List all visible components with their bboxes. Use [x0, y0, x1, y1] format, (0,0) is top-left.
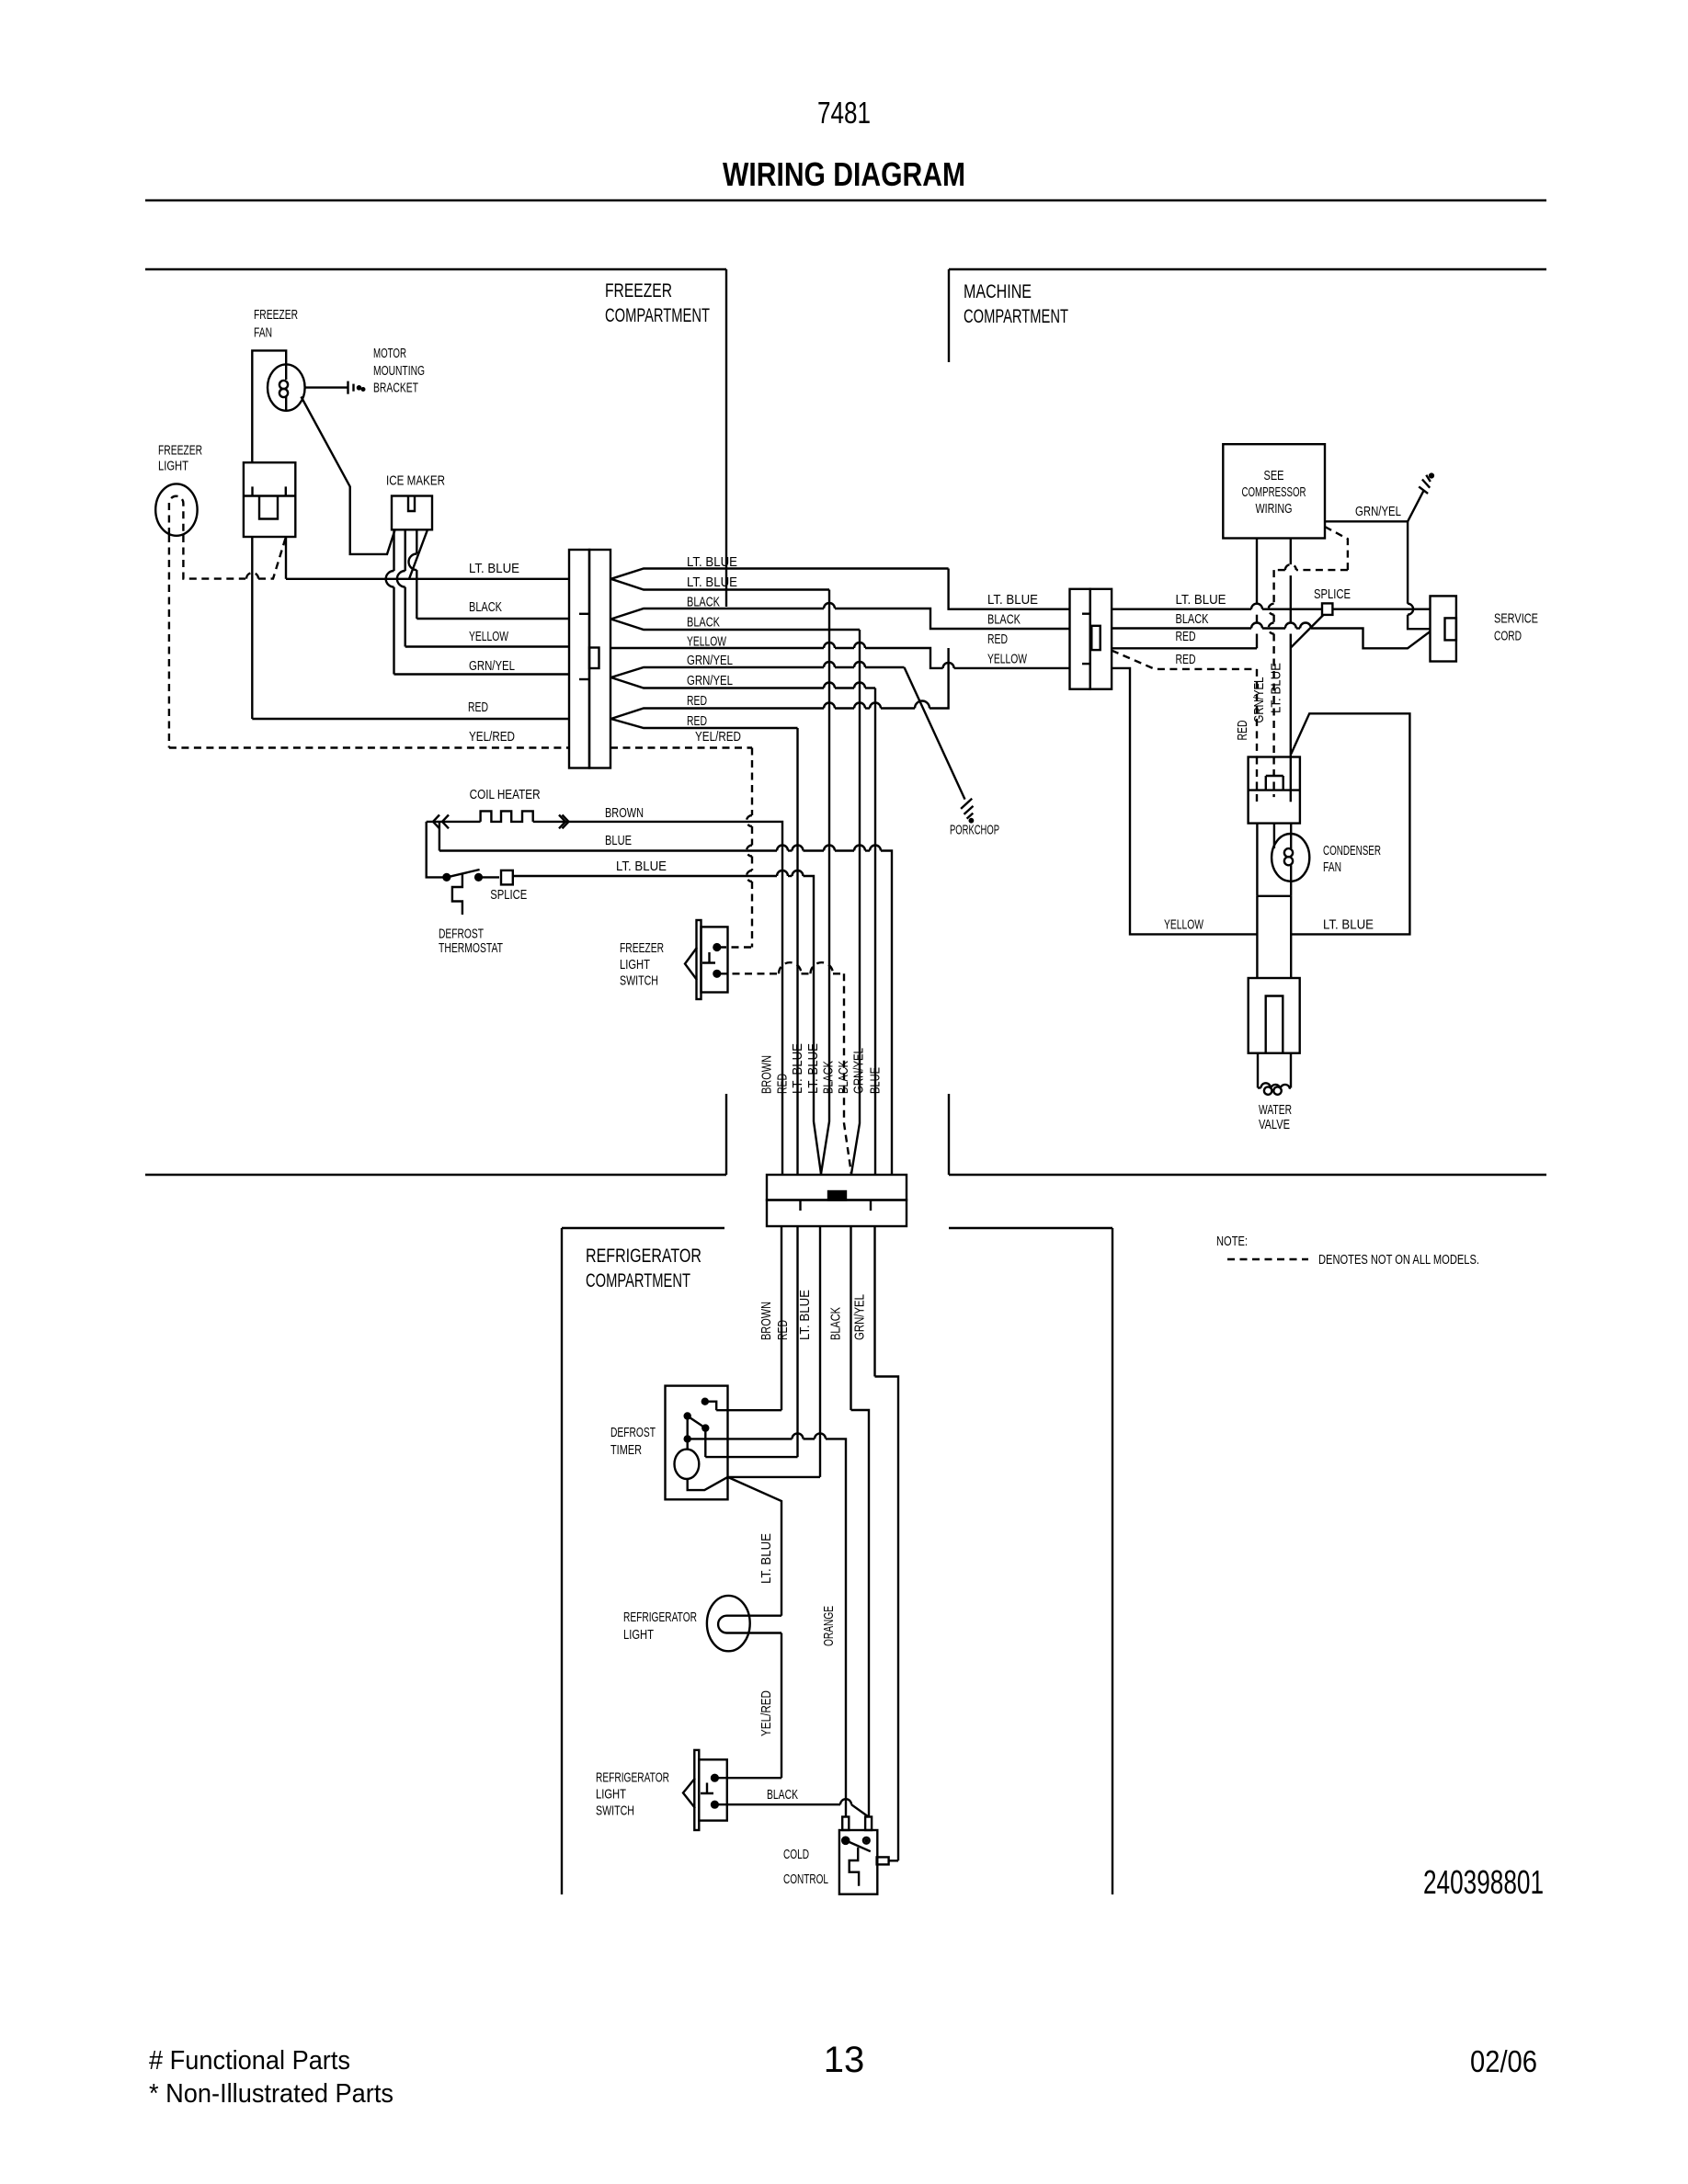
svg-text:RED: RED	[987, 632, 1008, 647]
refrigerator light switch body	[694, 1750, 699, 1830]
svg-text:240398801: 240398801	[1423, 1863, 1544, 1901]
svg-text:GRN/YEL: GRN/YEL	[687, 654, 733, 668]
svg-text:WIRING DIAGRAM: WIRING DIAGRAM	[723, 155, 965, 193]
svg-text:LT. BLUE: LT. BLUE	[1176, 593, 1226, 608]
svg-text:BLACK: BLACK	[469, 600, 502, 615]
svg-text:COMPRESSOR: COMPRESSOR	[1242, 485, 1306, 500]
svg-text:VALVE: VALVE	[1259, 1118, 1290, 1132]
wire LT. BLUE into defrost timer	[728, 1476, 821, 1478]
wire LT. BLUE row from splice to bundle	[513, 875, 610, 877]
svg-text:SEE: SEE	[1264, 469, 1284, 483]
wire LT. BLUE to refrigerator light	[728, 1477, 782, 1616]
freezer light filament (dashed)	[169, 496, 184, 535]
svg-text:DENOTES NOT ON ALL MODELS.: DENOTES NOT ON ALL MODELS.	[1318, 1253, 1479, 1268]
svg-text:YELLOW: YELLOW	[687, 635, 726, 650]
freezer compartment boundary top	[145, 268, 726, 270]
svg-text:DEFROST: DEFROST	[610, 1426, 656, 1440]
wire BLACK row to connector P1	[416, 618, 569, 620]
wire freezer light to YEL/RED row (dashed)	[168, 535, 170, 748]
svg-text:LIGHT: LIGHT	[158, 460, 188, 474]
machine compartment boundary bottom	[948, 1094, 950, 1175]
wire YEL/RED dashed descends to freezer light switch	[751, 748, 753, 816]
svg-text:RED: RED	[687, 714, 707, 729]
svg-text:LIGHT: LIGHT	[596, 1788, 626, 1803]
GRN/YEL dashed from compressor	[1325, 527, 1348, 570]
svg-text:LT. BLUE: LT. BLUE	[469, 562, 519, 576]
svg-text:RED: RED	[1176, 653, 1196, 667]
defrost timer contact 3	[702, 1426, 708, 1431]
svg-text:REFRIGERATOR: REFRIGERATOR	[586, 1246, 701, 1267]
machine ground symbol	[1408, 491, 1424, 522]
cold control thermostat zigzag	[850, 1848, 859, 1886]
refrigerator compartment boundary	[562, 1227, 724, 1229]
freezer compartment boundary bottom	[725, 1094, 727, 1175]
connector P3 body	[767, 1175, 907, 1200]
porkchop ground symbol	[961, 799, 972, 809]
wire YELLOW row through crossings	[610, 647, 824, 649]
svg-text:NOTE:: NOTE:	[1216, 1234, 1248, 1249]
svg-text:YEL/RED: YEL/RED	[469, 730, 515, 745]
svg-text:REFRIGERATOR: REFRIGERATOR	[623, 1610, 697, 1625]
cold control body	[839, 1830, 877, 1894]
svg-text:LIGHT: LIGHT	[620, 958, 650, 973]
svg-text:MACHINE: MACHINE	[964, 281, 1032, 302]
svg-text:BRACKET: BRACKET	[373, 381, 418, 396]
svg-text:BLUE: BLUE	[869, 1067, 884, 1094]
cold control contacts	[842, 1837, 849, 1844]
svg-text:BLACK: BLACK	[1176, 612, 1209, 627]
ice maker pin 3 wire to BLACK	[416, 529, 417, 553]
svg-text:LT. BLUE: LT. BLUE	[798, 1290, 813, 1340]
note dashed sample	[1227, 1258, 1308, 1260]
freezer light switch body	[697, 920, 701, 999]
svg-text:BLACK: BLACK	[687, 616, 720, 631]
wire LT. BLUE splice to service cord	[1332, 609, 1430, 610]
wire LT. BLUE P2 to splice	[1112, 609, 1251, 610]
machine compartment boundary top	[949, 268, 1546, 270]
svg-text:LT. BLUE: LT. BLUE	[687, 575, 737, 590]
svg-text:SWITCH: SWITCH	[620, 974, 658, 989]
freezer fan motor M1	[268, 364, 305, 410]
svg-text:ORANGE: ORANGE	[822, 1606, 837, 1646]
wire freezer light to fan bracket (dashed)	[183, 535, 245, 579]
svg-text:COMPARTMENT: COMPARTMENT	[586, 1270, 690, 1291]
svg-text:FREEZER: FREEZER	[158, 444, 202, 459]
see compressor wiring box	[1223, 444, 1325, 538]
svg-text:LT. BLUE: LT. BLUE	[1323, 918, 1374, 933]
compressor pin 1 wire	[1256, 539, 1258, 604]
svg-text:YELLOW: YELLOW	[1164, 918, 1203, 933]
svg-text:BLACK: BLACK	[987, 613, 1021, 628]
wire GRN/YEL row to connector P1	[394, 673, 570, 675]
svg-text:LT. BLUE: LT. BLUE	[1270, 663, 1284, 713]
svg-text:BROWN: BROWN	[760, 1055, 775, 1094]
svg-text:LT. BLUE: LT. BLUE	[987, 593, 1038, 608]
wire YEL/RED row to connector P1 (dashed)	[169, 746, 569, 748]
wire BLACK bundle vertical (from connector P1)	[851, 630, 860, 1174]
connector P2 body	[1070, 589, 1090, 689]
wire bracket left to RED row	[251, 537, 253, 719]
svg-text:7481: 7481	[817, 96, 871, 130]
svg-text:RED: RED	[776, 1320, 791, 1340]
svg-text:CONDENSER: CONDENSER	[1323, 844, 1381, 859]
wire GRN/YEL to porkchop ground (diagonal)	[905, 667, 965, 800]
defrost thermostat DT1	[443, 874, 450, 881]
svg-text:RED: RED	[687, 694, 707, 709]
freezer light switch actuator triangle	[685, 948, 697, 980]
defrost timer motor	[687, 1419, 689, 1450]
wire BLACK from switch to cold control	[718, 1803, 841, 1805]
svg-text:YEL/RED: YEL/RED	[695, 730, 741, 745]
ice maker pin 1 wire to GRN/YEL	[393, 529, 394, 571]
svg-text:FAN: FAN	[254, 326, 272, 341]
svg-text:MOUNTING: MOUNTING	[373, 364, 425, 379]
svg-text:LT. BLUE: LT. BLUE	[806, 1043, 821, 1094]
svg-text:DEFROST: DEFROST	[439, 927, 484, 942]
svg-text:LT. BLUE: LT. BLUE	[687, 555, 737, 570]
svg-text:BROWN: BROWN	[605, 806, 644, 821]
svg-text:COIL HEATER: COIL HEATER	[470, 788, 541, 802]
freezer light bulb L1	[155, 483, 197, 535]
svg-text:CONTROL: CONTROL	[783, 1872, 828, 1887]
wire LT. BLUE big loop	[1291, 713, 1409, 934]
freezer fan mounting bracket connector	[244, 462, 295, 537]
svg-text:LIGHT: LIGHT	[623, 1628, 654, 1643]
compressor relay box	[1249, 757, 1300, 824]
svg-text:FAN: FAN	[1323, 860, 1341, 875]
motor mounting bracket ground symbol	[305, 386, 348, 388]
svg-text:LT. BLUE: LT. BLUE	[759, 1533, 774, 1584]
svg-text:YELLOW: YELLOW	[469, 630, 508, 644]
svg-text:FREEZER: FREEZER	[605, 280, 672, 301]
wire GRN/YEL pennant pair	[611, 667, 825, 677]
condenser fan motor M2	[1272, 834, 1309, 882]
svg-text:REFRIGERATOR: REFRIGERATOR	[596, 1771, 669, 1786]
svg-text:02/06: 02/06	[1470, 2044, 1537, 2078]
wire freezer light switch to BLACK dashed bundle	[720, 973, 779, 974]
svg-text:WIRING: WIRING	[1256, 502, 1293, 517]
wire motor to ice maker (diagonal)	[302, 397, 395, 554]
wire YELLOW row to connector P1	[405, 645, 569, 647]
ice maker pin 4 wire to LT BLUE (diagonal)	[409, 529, 428, 579]
svg-text:PORKCHOP: PORKCHOP	[950, 824, 999, 838]
svg-text:BLACK: BLACK	[767, 1788, 798, 1803]
svg-text:COMPARTMENT: COMPARTMENT	[605, 305, 710, 326]
svg-text:WATER: WATER	[1259, 1103, 1292, 1118]
wire GRN/YEL jog to cold control	[875, 1377, 899, 1861]
svg-text:YEL/RED: YEL/RED	[759, 1690, 774, 1736]
wire BLACK P2 to service cord	[1112, 627, 1251, 629]
svg-text:SWITCH: SWITCH	[596, 1804, 634, 1819]
svg-text:GRN/YEL: GRN/YEL	[852, 1048, 867, 1094]
water valve body	[1249, 978, 1300, 1053]
svg-text:BROWN: BROWN	[759, 1302, 774, 1340]
wire BROWN-BLUE link	[439, 822, 440, 851]
wire coil heater left leg	[427, 822, 444, 878]
wire RED row to connector P1	[252, 718, 569, 720]
wires down to water valve	[1256, 896, 1258, 978]
svg-text:RED: RED	[1236, 721, 1250, 741]
splice diagonal to compressor pin	[1291, 615, 1324, 648]
defrost timer box	[666, 1386, 728, 1500]
wire LT. BLUE pennant pair	[611, 569, 949, 579]
wire BROWN into defrost timer	[716, 1409, 781, 1411]
service cord connector	[1431, 596, 1456, 661]
coil heater element	[433, 815, 439, 829]
splice S2 square	[1322, 603, 1332, 615]
svg-text:BLACK: BLACK	[829, 1307, 844, 1340]
wire BLACK dashed bundle vertical (from freezer light switch)	[844, 973, 851, 1174]
refrigerator light bulb L2	[707, 1596, 750, 1651]
wire RED P2 to compressor	[1112, 647, 1257, 649]
wire BROWN row from coil heater to bundle	[533, 822, 782, 1175]
wire contact 4 to ORANGE	[688, 1438, 793, 1439]
svg-text:RED: RED	[776, 1074, 791, 1094]
svg-text:FREEZER: FREEZER	[620, 941, 664, 956]
defrost thermostat zigzag	[452, 873, 462, 915]
ice maker body	[392, 496, 432, 530]
svg-text:SPLICE: SPLICE	[490, 888, 527, 903]
svg-text:* Non-Illustrated Parts: * Non-Illustrated Parts	[149, 2079, 393, 2109]
svg-text:SPLICE: SPLICE	[1314, 587, 1351, 602]
svg-text:GRN/YEL: GRN/YEL	[469, 659, 515, 674]
wire GRN/YEL down to service cord	[1407, 521, 1409, 603]
svg-text:LT. BLUE: LT. BLUE	[616, 859, 667, 874]
svg-text:BLACK: BLACK	[687, 596, 720, 610]
header rule	[145, 199, 1546, 201]
wire BLACK jog to cold control	[851, 1410, 870, 1817]
svg-text:LT. BLUE: LT. BLUE	[791, 1043, 805, 1094]
svg-text:CORD: CORD	[1494, 630, 1522, 644]
svg-text:GRN/YEL: GRN/YEL	[853, 1294, 868, 1340]
wire fan bottom loop	[1290, 882, 1292, 896]
wire YEL/RED dashed right of connector P1	[610, 746, 752, 748]
svg-text:BLACK: BLACK	[822, 1061, 837, 1094]
svg-text:GRN/YEL: GRN/YEL	[687, 674, 733, 688]
wire freezer fan top loop	[252, 350, 286, 462]
svg-text:YELLOW: YELLOW	[987, 653, 1027, 667]
wire relay to condenser fan loop	[1256, 824, 1258, 896]
svg-text:GRN/YEL: GRN/YEL	[1355, 505, 1401, 519]
wire GRN/YEL bundle vertical	[874, 688, 876, 1176]
wire BLACK pennant pair	[611, 609, 825, 620]
svg-text:TIMER: TIMER	[610, 1443, 642, 1458]
water valve coil	[1257, 1053, 1259, 1088]
svg-text:BLACK: BLACK	[837, 1061, 851, 1094]
svg-text:MOTOR: MOTOR	[373, 347, 406, 361]
svg-text:COLD: COLD	[783, 1848, 809, 1862]
svg-text:COMPARTMENT: COMPARTMENT	[964, 306, 1068, 327]
wires through connector P3	[781, 1226, 782, 1410]
svg-text:GRN/YEL: GRN/YEL	[1252, 677, 1267, 723]
wire YELLOW P2 to water valve	[1112, 668, 1257, 935]
ice maker pin 2 wire to YELLOW	[405, 529, 406, 571]
wire LT. BLUE descend to row at connector P2	[949, 569, 1070, 609]
wire RED pennant pair	[611, 709, 825, 720]
cold control side stub to GRN/YEL	[877, 1857, 889, 1864]
defrost timer contact 4	[685, 1436, 690, 1441]
svg-text:THERMOSTAT: THERMOSTAT	[439, 941, 503, 956]
svg-text:RED: RED	[1176, 630, 1196, 644]
refrigerator light switch actuator triangle	[683, 1779, 695, 1809]
splice S1	[482, 876, 499, 878]
wire LT. BLUE row to connector P1	[286, 578, 569, 580]
svg-text:# Functional Parts: # Functional Parts	[149, 2046, 350, 2076]
wire YEL/RED into switch	[718, 1777, 782, 1779]
connector P1 body	[569, 550, 589, 768]
wire RED dashed P2 to relay	[1112, 651, 1257, 669]
svg-text:SERVICE: SERVICE	[1494, 612, 1538, 627]
svg-text:ICE MAKER: ICE MAKER	[386, 473, 445, 488]
wire YEL/RED light to switch	[781, 1633, 782, 1779]
GRN/YEL wire to chassis ground	[1325, 520, 1408, 522]
svg-text:13: 13	[824, 2040, 865, 2080]
wire BLUE row from coil heater to bundle	[439, 849, 777, 851]
svg-text:FREEZER: FREEZER	[254, 308, 298, 323]
defrost timer contact 2 + arm	[685, 1414, 690, 1419]
wire LT. BLUE bundle vertical (from connector P1)	[821, 590, 829, 1175]
wire bracket right to LT BLUE row	[285, 537, 287, 579]
wire RED bundle vertical (from connector P1)	[796, 728, 798, 1175]
compressor pin 2 wire	[1290, 539, 1292, 565]
svg-text:BLUE: BLUE	[605, 834, 632, 848]
defrost timer contact 1	[702, 1399, 708, 1405]
svg-text:RED: RED	[468, 700, 488, 715]
wire RED into defrost timer	[705, 1456, 797, 1458]
